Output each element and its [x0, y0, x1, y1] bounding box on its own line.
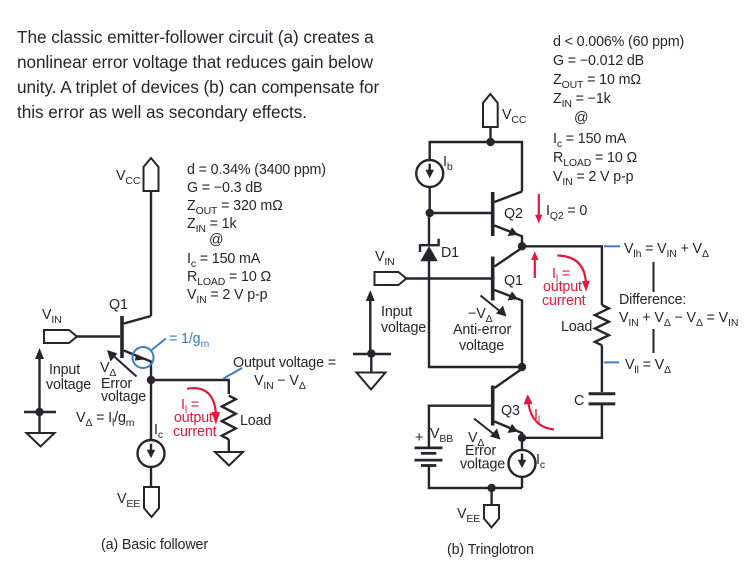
wire rail left to Ib (b)	[430, 142, 491, 160]
CIRCUIT-A	[24, 158, 336, 553]
svg-text:Difference:: Difference:	[619, 292, 686, 308]
svg-text:@: @	[574, 110, 588, 126]
transistor Q1 (b)	[493, 249, 523, 368]
svg-text:voltage: voltage	[46, 377, 91, 393]
wire VIN to Q1 base (b)	[406, 277, 491, 279]
annotation 1/gm (a)	[133, 331, 210, 368]
power VEE (b)	[457, 488, 499, 528]
wire current source to VEE (a)	[150, 467, 152, 487]
annotation output voltage (a)	[224, 355, 336, 392]
wire node to current source (a)	[150, 380, 152, 440]
svg-text:Q1: Q1	[109, 297, 128, 313]
svg-text:Output voltage =: Output voltage =	[233, 355, 336, 371]
svg-text:Q2: Q2	[504, 206, 523, 222]
current source Ic (a)	[138, 422, 165, 467]
svg-text:Q3: Q3	[501, 403, 520, 419]
capacitor C (b)	[574, 393, 615, 409]
svg-text:Input: Input	[49, 362, 80, 378]
wire load to capacitor (b)	[601, 345, 603, 392]
svg-text:voltage: voltage	[101, 389, 146, 405]
node Q2 base (b)	[426, 209, 434, 217]
parameter list (b)	[553, 34, 684, 188]
current source Ic (b)	[509, 450, 545, 477]
input port VIN (a)	[42, 307, 77, 343]
svg-text:d < 0.006% (60 ppm): d < 0.006% (60 ppm)	[553, 34, 684, 50]
svg-text:(a) Basic follower: (a) Basic follower	[101, 537, 208, 553]
annotation difference (b)	[619, 262, 738, 353]
svg-text:G = −0.3 dB: G = −0.3 dB	[187, 180, 262, 196]
annotation output current (a)	[173, 388, 220, 440]
resistor Load (b)	[561, 305, 609, 345]
node output high (b)	[518, 242, 526, 250]
INTRO-TEXT	[17, 27, 379, 122]
annotation error voltage arrow (a)	[100, 350, 146, 405]
zener diode D1 (b)	[420, 217, 522, 367]
annotation anti-error voltage (b)	[453, 296, 511, 355]
annotation Vlh label (b)	[604, 241, 709, 260]
wire VCC to Q1 collector (a)	[150, 191, 152, 316]
transistor Q1 (a)	[109, 297, 151, 380]
annotation output current (b)	[542, 256, 590, 310]
svg-text:C: C	[574, 393, 584, 409]
wire capacitor to emitter node (b)	[522, 405, 602, 438]
svg-text:Anti-error: Anti-error	[453, 322, 511, 338]
resistor Load (a)	[222, 396, 272, 440]
svg-text:nonlinear error voltage that r: nonlinear error voltage that reduces gai…	[17, 52, 374, 72]
svg-text:The classic emitter-follower c: The classic emitter-follower circuit (a)…	[17, 27, 374, 47]
svg-text:d = 0.34% (3400 ppm): d = 0.34% (3400 ppm)	[187, 162, 326, 178]
parameter list (a)	[187, 162, 326, 306]
annotation Il arc (b)	[524, 394, 555, 429]
annotation input voltage arrow (a)	[35, 348, 91, 412]
svg-text:Load: Load	[240, 413, 271, 429]
wire node to current source Ic (b)	[521, 438, 523, 451]
annotation IQ2 arrow (b)	[535, 194, 587, 224]
ground input (b)	[353, 349, 391, 389]
svg-text:Input: Input	[381, 304, 412, 320]
wire Ib to base node (b)	[429, 187, 431, 213]
node VCC rail (b)	[486, 138, 494, 146]
wire base node to Q2 (b)	[430, 212, 491, 214]
svg-text:voltage: voltage	[381, 320, 426, 336]
input port VIN (b)	[375, 249, 407, 285]
wire output node to load (b)	[522, 246, 602, 305]
power VEE (a)	[117, 487, 159, 517]
wire load to ground (a)	[228, 439, 230, 452]
svg-text:current: current	[173, 424, 217, 440]
CIRCUIT-B	[353, 34, 738, 558]
svg-text:(b) Tringlotron: (b) Tringlotron	[447, 542, 534, 558]
annotation error voltage (b)	[460, 419, 505, 473]
ground load (a)	[215, 452, 243, 466]
current source Ib (b)	[416, 154, 453, 187]
svg-text:this error as well as secondar: this error as well as secondary effects.	[17, 102, 307, 122]
power VCC (b)	[483, 94, 527, 127]
annotation Vll label (b)	[604, 357, 671, 376]
wire current source to bottom rail (b)	[521, 477, 523, 488]
svg-text:D1: D1	[441, 245, 459, 261]
wire node to load (a)	[151, 380, 229, 394]
wire battery to bottom rail (b)	[429, 466, 522, 488]
annotation Il up arrow (b)	[531, 251, 538, 278]
transistor Q2 (b)	[493, 192, 523, 247]
svg-text:unity. A triplet of devices (b: unity. A triplet of devices (b) can comp…	[17, 77, 379, 97]
transistor Q3 (b)	[493, 370, 522, 438]
wire rail right to Q2 collector (b)	[491, 142, 523, 192]
svg-text:+: +	[415, 430, 423, 446]
svg-text:voltage: voltage	[460, 457, 505, 473]
wire VIN to Q1 base (a)	[77, 335, 120, 337]
node VEE (b)	[487, 484, 495, 492]
svg-text:G = −0.012 dB: G = −0.012 dB	[553, 53, 644, 69]
svg-text:Load: Load	[561, 319, 592, 335]
svg-text:voltage: voltage	[459, 338, 504, 354]
wire Q3 base to battery (b)	[429, 406, 491, 448]
node Q3 emitter (b)	[518, 434, 526, 442]
svg-text:@: @	[209, 232, 223, 248]
wire VCC to rail node (b)	[489, 127, 491, 142]
svg-text:current: current	[542, 293, 586, 309]
annotation input voltage arrow (b)	[366, 290, 426, 353]
node output (a)	[147, 376, 155, 384]
node mid rail (b)	[518, 363, 526, 371]
power VCC (a)	[116, 158, 159, 191]
ground input (a)	[24, 408, 56, 447]
battery VBB (b)	[415, 426, 454, 466]
svg-text:Q1: Q1	[504, 273, 523, 289]
